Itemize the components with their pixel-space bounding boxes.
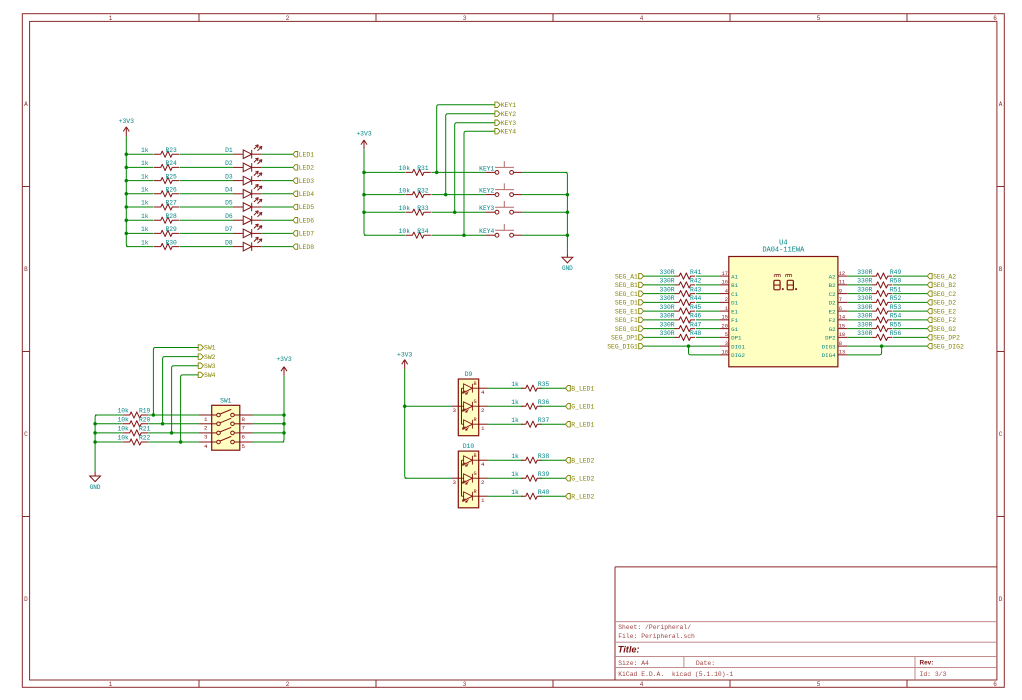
junction — [362, 193, 366, 197]
wire label SEG_DIG1 to U4 pin DIG1 — [644, 345, 720, 347]
svg-text:7: 7 — [242, 425, 246, 432]
wire R23 to D1 — [180, 153, 233, 155]
svg-text:D8: D8 — [225, 239, 233, 246]
svg-text:9: 9 — [839, 288, 842, 294]
hierarchical label KEY1 — [495, 102, 516, 109]
svg-text:330R: 330R — [659, 269, 674, 276]
svg-text:1k: 1k — [141, 147, 149, 154]
wire R49 to label SEG_A2 — [893, 275, 928, 277]
wire R51 to label SEG_C2 — [893, 293, 928, 295]
svg-text:1: 1 — [725, 306, 728, 312]
wire R53 to label SEG_E2 — [893, 310, 928, 312]
svg-text:R55: R55 — [890, 321, 902, 328]
component D10 body — [458, 451, 478, 508]
wire R48 to U4 pin DP1 — [696, 336, 720, 338]
svg-text:D5: D5 — [225, 200, 233, 207]
hierarchical label LED1 — [293, 151, 314, 158]
svg-text:Title:: Title: — [618, 644, 640, 654]
resistor R50 — [872, 282, 892, 288]
hierarchical label SEG_C1 — [615, 291, 644, 298]
hierarchical label LED8 — [293, 244, 314, 251]
svg-text:R44: R44 — [690, 295, 702, 302]
svg-text:Size: A4: Size: A4 — [618, 660, 649, 667]
svg-text:4: 4 — [481, 461, 485, 468]
svg-text:2: 2 — [725, 297, 728, 303]
svg-text:330R: 330R — [857, 286, 872, 293]
wire D9 to R35 — [488, 387, 523, 389]
D10 LED element G — [462, 474, 479, 485]
svg-text:D4: D4 — [225, 187, 233, 194]
resistor R19 — [123, 412, 149, 418]
wire bus to R30 — [126, 246, 153, 248]
resistor R22 — [123, 439, 149, 445]
svg-text:D: D — [24, 596, 28, 603]
hierarchical label G_LED1 — [566, 403, 595, 410]
svg-text:15: 15 — [839, 323, 845, 329]
wire D10 to R39 — [488, 477, 523, 479]
svg-text:330R: 330R — [857, 313, 872, 320]
svg-text:6: 6 — [242, 434, 246, 441]
svg-text:G1: G1 — [731, 326, 738, 333]
junction — [170, 431, 174, 435]
wire node KEY3 to label (rounded corner) — [455, 123, 495, 213]
resistor R42 — [675, 282, 696, 288]
wire U4 pin B2 to R50 — [847, 284, 872, 286]
svg-text:12: 12 — [839, 271, 845, 277]
wire R31 to switch KEY1 — [431, 171, 485, 173]
resistor R24 — [154, 164, 179, 170]
hierarchical label SW3 — [198, 363, 215, 370]
wire R29 to D7 — [180, 232, 233, 234]
svg-text:SEG_F1: SEG_F1 — [615, 317, 638, 324]
svg-text:SEG_A1: SEG_A1 — [615, 273, 638, 280]
hierarchical label LED5 — [293, 204, 314, 211]
svg-text:D1: D1 — [731, 300, 738, 307]
svg-text:2: 2 — [286, 15, 290, 22]
svg-text:20: 20 — [722, 323, 728, 329]
wire bus to R27 — [126, 206, 153, 208]
resistor R41 — [675, 273, 696, 279]
U4 pin 3 (DIG1) — [719, 341, 745, 350]
resistor R36 — [521, 403, 542, 409]
svg-text:B_LED2: B_LED2 — [571, 457, 594, 464]
svg-text:R25: R25 — [166, 173, 178, 180]
wire bus to R21 — [95, 432, 122, 434]
resistor R26 — [154, 191, 179, 197]
svg-text:R52: R52 — [890, 295, 902, 302]
svg-text:D: D — [999, 596, 1003, 603]
wire GND bus (keys) — [565, 172, 567, 253]
svg-text:+3V3: +3V3 — [276, 356, 292, 363]
junction — [435, 171, 439, 175]
svg-text:SW1: SW1 — [204, 345, 216, 352]
wire bus to R22 — [95, 441, 122, 443]
svg-text:R54: R54 — [890, 313, 902, 320]
hierarchical label SEG_B1 — [615, 282, 644, 289]
svg-text:5: 5 — [242, 443, 246, 450]
D10 pin 3 — [452, 478, 459, 486]
component U4 body — [729, 257, 838, 367]
wire label SEG_D1 to R44 — [644, 301, 676, 303]
wire node KEY4 to label (rounded corner) — [464, 131, 495, 235]
svg-text:10k: 10k — [117, 435, 129, 442]
svg-text:10k: 10k — [117, 426, 129, 433]
SW1 switch element 1 — [212, 409, 240, 416]
resistor R37 — [521, 421, 542, 427]
hierarchical label LED4 — [293, 191, 314, 198]
resistor R55 — [872, 326, 892, 332]
svg-text:R27: R27 — [166, 200, 178, 207]
wire label SEG_A1 to R41 — [644, 275, 676, 277]
svg-text:3: 3 — [204, 434, 208, 441]
wire R50 to label SEG_B2 — [893, 284, 928, 286]
wire D5 to label LED5 — [261, 206, 293, 208]
hierarchical label SEG_DIG2 — [927, 343, 964, 350]
D10 internal anode bus — [458, 460, 461, 496]
hierarchical label KEY3 — [495, 120, 516, 127]
wire R22 to SW1 pin 4 — [148, 441, 199, 443]
svg-text:R19: R19 — [139, 408, 151, 415]
svg-text:1k: 1k — [511, 399, 519, 406]
hierarchical label SW4 — [198, 372, 215, 379]
svg-text:1k: 1k — [141, 160, 149, 167]
svg-text:A: A — [24, 101, 28, 108]
svg-text:1k: 1k — [141, 187, 149, 194]
svg-text:G_LED1: G_LED1 — [571, 403, 594, 410]
svg-text:1: 1 — [109, 681, 113, 688]
resistor R52 — [872, 299, 892, 305]
svg-text:10k: 10k — [117, 417, 129, 424]
svg-text:17: 17 — [722, 271, 728, 277]
SW1 switch element 4 — [212, 436, 240, 443]
wire bus to R28 — [126, 219, 153, 221]
ground — [562, 253, 573, 272]
svg-text:R: R — [473, 489, 476, 495]
svg-text:R34: R34 — [417, 228, 429, 235]
D9 pin 4 — [479, 388, 488, 396]
wire D7 to label LED7 — [261, 232, 293, 234]
svg-text:LED7: LED7 — [299, 231, 315, 238]
svg-text:R37: R37 — [538, 417, 550, 424]
wire label SEG_F1 to R46 — [644, 319, 676, 321]
svg-text:1k: 1k — [511, 381, 519, 388]
svg-text:DIG3: DIG3 — [822, 343, 836, 350]
wire R39 to label G_LED2 — [540, 477, 565, 479]
svg-text:SEG_G1: SEG_G1 — [615, 326, 638, 333]
svg-text:4: 4 — [640, 681, 644, 688]
svg-text:R46: R46 — [690, 313, 702, 320]
svg-text:SEG_C2: SEG_C2 — [933, 291, 956, 298]
svg-text:18: 18 — [722, 350, 728, 356]
wire R37 to label R_LED1 — [540, 423, 565, 425]
U4 pin 10 (DP2) — [825, 332, 847, 341]
svg-text:SEG_D1: SEG_D1 — [615, 300, 638, 307]
resistor R46 — [675, 317, 696, 323]
svg-text:4: 4 — [481, 389, 485, 396]
svg-text:330R: 330R — [659, 330, 674, 337]
svg-text:G2: G2 — [829, 326, 836, 333]
svg-text:R22: R22 — [139, 435, 151, 442]
wire D6 to label LED6 — [261, 219, 293, 221]
wire D3 to label LED3 — [261, 180, 293, 182]
hierarchical label SEG_DIG1 — [607, 343, 643, 350]
svg-text:R32: R32 — [417, 187, 429, 194]
svg-text:15: 15 — [722, 315, 728, 321]
svg-text:5: 5 — [725, 332, 728, 338]
hierarchical label SEG_D1 — [615, 300, 644, 307]
LED D6 — [233, 211, 262, 225]
junction — [152, 413, 156, 417]
svg-text:LED2: LED2 — [299, 165, 315, 172]
wire +3V3 bus (RGB) — [405, 369, 407, 478]
D10 pin 2 — [479, 478, 488, 486]
wire D9 to R37 — [488, 423, 523, 425]
svg-text:7: 7 — [839, 297, 842, 303]
junction — [566, 193, 570, 197]
LED D8 — [233, 237, 262, 251]
junction — [362, 171, 366, 175]
svg-text:330R: 330R — [857, 295, 872, 302]
wire label SEG_E1 to R45 — [644, 310, 676, 312]
svg-text:R29: R29 — [166, 226, 178, 233]
wire D4 to label LED4 — [261, 193, 293, 195]
svg-text:KEY3: KEY3 — [501, 120, 517, 127]
svg-text:1k: 1k — [141, 226, 149, 233]
svg-text:3: 3 — [453, 479, 457, 486]
wire R54 to label SEG_F2 — [893, 319, 928, 321]
junction — [161, 422, 165, 426]
svg-text:R33: R33 — [417, 205, 429, 212]
junction — [125, 179, 129, 183]
push button switch KEY2 — [485, 183, 522, 196]
svg-text:SW3: SW3 — [204, 363, 216, 370]
D9 pin 3 — [452, 406, 459, 414]
SW1 pin 2 — [199, 424, 212, 432]
svg-text:B: B — [24, 266, 28, 273]
power +3V3 — [356, 131, 372, 150]
svg-text:2: 2 — [481, 407, 485, 414]
svg-text:4: 4 — [725, 288, 728, 294]
resistor R54 — [872, 317, 892, 323]
svg-text:330R: 330R — [857, 330, 872, 337]
resistor R27 — [154, 204, 179, 210]
svg-text:D2: D2 — [225, 160, 233, 167]
svg-text:R28: R28 — [166, 213, 178, 220]
wire bus to R19 — [95, 414, 122, 416]
svg-text:10k: 10k — [399, 165, 411, 172]
svg-text:E2: E2 — [829, 308, 836, 315]
svg-text:R36: R36 — [538, 399, 550, 406]
svg-text:D7: D7 — [225, 226, 233, 233]
U4 pin 5 (DP1) — [719, 332, 742, 341]
wire R30 to D8 — [180, 246, 233, 248]
svg-text:1: 1 — [481, 425, 485, 432]
svg-text:8: 8 — [839, 341, 842, 347]
wire U4 pin E2 to R53 — [847, 310, 872, 312]
wire node KEY2 to label (rounded corner) — [446, 114, 495, 195]
hierarchical label LED3 — [293, 178, 314, 185]
resistor R48 — [675, 334, 696, 340]
wire U4 pin A2 to R49 — [847, 275, 872, 277]
resistor R33 — [405, 209, 431, 215]
wire U4 pin C2 to R51 — [847, 293, 872, 295]
svg-text:R_LED1: R_LED1 — [571, 421, 594, 428]
resistor R30 — [154, 244, 179, 250]
svg-text:KEY2: KEY2 — [479, 188, 494, 195]
LED D4 — [233, 184, 262, 198]
svg-text:2: 2 — [286, 681, 290, 688]
svg-text:5: 5 — [817, 681, 821, 688]
svg-text:SEG_A2: SEG_A2 — [933, 273, 956, 280]
resistor R20 — [123, 421, 149, 427]
resistor R53 — [872, 308, 892, 314]
svg-text:GND: GND — [562, 265, 573, 272]
svg-text:D1: D1 — [225, 147, 233, 154]
svg-text:11: 11 — [839, 280, 845, 286]
hierarchical label KEY2 — [495, 111, 516, 118]
U4 pin 18 (DIG2) — [719, 350, 745, 359]
svg-text:LED1: LED1 — [299, 151, 315, 158]
wire switch KEY1 to GND bus — [522, 171, 567, 173]
wire switch KEY2 to GND bus — [522, 194, 567, 196]
svg-text:330R: 330R — [659, 313, 674, 320]
svg-text:SW1: SW1 — [220, 397, 232, 404]
svg-text:D9: D9 — [465, 371, 473, 378]
svg-text:C1: C1 — [731, 291, 738, 298]
svg-text:KEY4: KEY4 — [479, 228, 494, 235]
svg-text:DP2: DP2 — [825, 335, 836, 342]
svg-text:R20: R20 — [139, 417, 151, 424]
svg-text:LED6: LED6 — [299, 217, 315, 224]
SW1 pin 1 — [199, 415, 212, 423]
U4 pin 6 (E2) — [829, 306, 848, 315]
svg-text:R47: R47 — [690, 321, 702, 328]
svg-text:KEY2: KEY2 — [501, 111, 517, 118]
U4 pin 8 (DIG3) — [822, 341, 848, 350]
svg-text:B: B — [473, 453, 476, 459]
wire switch KEY3 to GND bus — [522, 211, 567, 213]
wire switch KEY4 to GND bus — [522, 234, 567, 236]
svg-text:R40: R40 — [538, 489, 550, 496]
resistor R49 — [872, 273, 892, 279]
wire D9 to R36 — [488, 405, 523, 407]
svg-text:B2: B2 — [829, 282, 836, 289]
svg-text:330R: 330R — [659, 295, 674, 302]
wire bus to R29 — [126, 232, 153, 234]
wire node SW4 to label (rounded corner) — [181, 375, 199, 442]
hierarchical label LED6 — [293, 217, 314, 224]
svg-text:6: 6 — [993, 15, 997, 22]
wire R24 to D2 — [180, 166, 233, 168]
wire bus to R34 — [364, 234, 405, 236]
svg-text:SEG_F2: SEG_F2 — [933, 317, 956, 324]
wire R34 to switch KEY4 — [431, 234, 485, 236]
hierarchical label SW2 — [198, 354, 215, 361]
resistor R25 — [154, 178, 179, 184]
wire D10 to R40 — [488, 495, 523, 497]
D9 pin 1 — [479, 424, 488, 432]
svg-text:1k: 1k — [141, 200, 149, 207]
wire R21 to SW1 pin 3 — [148, 432, 199, 434]
svg-text:R24: R24 — [166, 160, 178, 167]
hierarchical label SEG_F1 — [615, 317, 644, 324]
svg-text:Rev:: Rev: — [920, 660, 934, 667]
junction — [125, 218, 129, 222]
hierarchical label R_LED1 — [566, 421, 595, 428]
svg-text:DIG4: DIG4 — [822, 352, 836, 359]
hierarchical label R_LED2 — [566, 493, 595, 500]
svg-text:DIG1: DIG1 — [731, 343, 745, 350]
svg-text:F2: F2 — [829, 317, 836, 324]
svg-text:6: 6 — [839, 306, 842, 312]
junction — [282, 413, 286, 417]
LED D5 — [233, 198, 262, 212]
hierarchical label SEG_A1 — [615, 273, 644, 280]
svg-text:SEG_E1: SEG_E1 — [615, 308, 638, 315]
svg-text:A2: A2 — [829, 273, 836, 280]
wire R42 to U4 pin B1 — [696, 284, 720, 286]
svg-text:KiCad E.D.A. kicad (5.1.10)-1: KiCad E.D.A. kicad (5.1.10)-1 — [618, 671, 733, 678]
svg-text:4: 4 — [204, 443, 208, 450]
svg-text:SEG_DP1: SEG_DP1 — [611, 335, 638, 342]
svg-text:10: 10 — [839, 332, 845, 338]
wire D1 to label LED1 — [261, 153, 293, 155]
hierarchical label SEG_E2 — [927, 308, 956, 315]
svg-text:3: 3 — [725, 341, 728, 347]
ground — [90, 472, 101, 491]
SW1 pin 5 — [240, 442, 253, 450]
svg-text:LED5: LED5 — [299, 204, 315, 211]
hierarchical label SEG_D2 — [927, 300, 956, 307]
svg-text:2: 2 — [204, 425, 208, 432]
junction — [687, 344, 691, 348]
svg-text:DA04-11EWA: DA04-11EWA — [762, 247, 805, 255]
wire R26 to D4 — [180, 193, 233, 195]
wire SW1 pin 7 to +3V3 bus — [253, 423, 285, 425]
svg-text:1: 1 — [109, 15, 113, 22]
junction — [179, 440, 183, 444]
svg-text:2: 2 — [481, 479, 485, 486]
U4 pin 2 (D1) — [719, 297, 738, 306]
LED D3 — [233, 171, 262, 185]
svg-text:SEG_DIG2: SEG_DIG2 — [933, 343, 964, 350]
wire bus to R32 — [364, 194, 405, 196]
wire node SW2 to label (rounded corner) — [163, 357, 199, 424]
hierarchical label SEG_F2 — [927, 317, 956, 324]
svg-text:SEG_DIG1: SEG_DIG1 — [607, 343, 638, 350]
wire R27 to D5 — [180, 206, 233, 208]
LED D2 — [233, 158, 262, 172]
SW1 pin 6 — [240, 433, 253, 441]
hierarchical label SEG_DP2 — [927, 335, 960, 342]
U4 pin 7 (D2) — [829, 297, 848, 306]
junction — [93, 422, 97, 426]
svg-text:+3V3: +3V3 — [397, 352, 413, 359]
wire label SEG_G1 to R47 — [644, 328, 676, 330]
svg-text:R50: R50 — [890, 278, 902, 285]
U4 pin 20 (G1) — [719, 323, 738, 332]
wire U4 pin F2 to R54 — [847, 319, 872, 321]
svg-text:Date:: Date: — [696, 660, 715, 667]
wire label SEG_DP1 to R48 — [644, 336, 676, 338]
junction — [282, 431, 286, 435]
svg-text:D10: D10 — [463, 443, 475, 450]
svg-text:14: 14 — [839, 315, 845, 321]
D10 pin 4 — [479, 460, 488, 468]
svg-text:10k: 10k — [399, 187, 411, 194]
wire R52 to label SEG_D2 — [893, 301, 928, 303]
svg-text:D6: D6 — [225, 213, 233, 220]
